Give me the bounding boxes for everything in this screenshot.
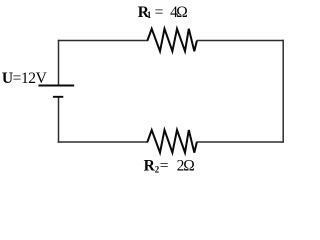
svg-text:Ω: Ω: [183, 158, 195, 175]
svg-text:=: =: [155, 4, 164, 21]
svg-text:1: 1: [147, 10, 151, 20]
svg-text:U=12V: U=12V: [2, 70, 48, 87]
svg-text:Ω: Ω: [176, 4, 188, 21]
svg-text:=: =: [160, 158, 169, 175]
